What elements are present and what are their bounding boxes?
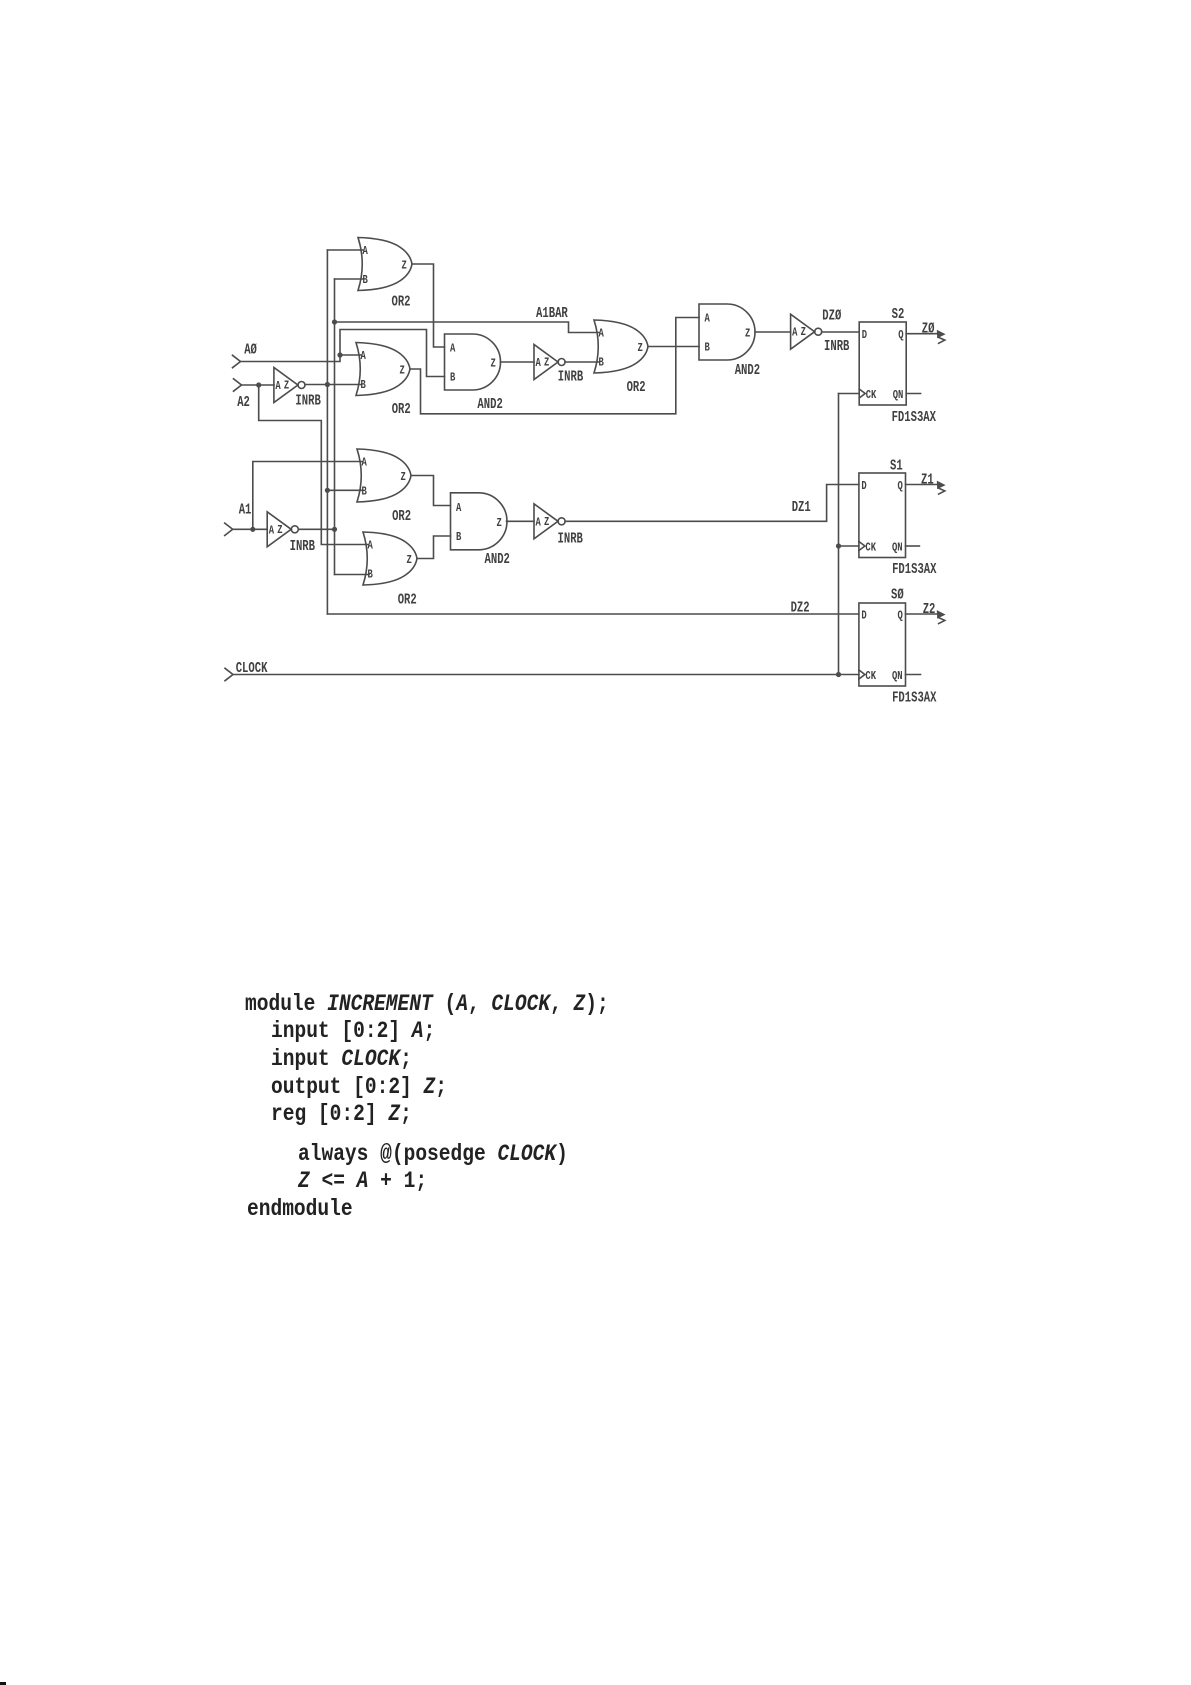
- svg-text:Z: Z: [491, 357, 496, 371]
- output port Z0: [906, 322, 945, 344]
- svg-text:DZ1: DZ1: [792, 500, 811, 516]
- svg-text:A1BAR: A1BAR: [536, 306, 568, 322]
- wire net A1BAR branch to OR2 pin A (labelled A1BAR): [332, 306, 599, 333]
- svg-text:Z: Z: [497, 516, 502, 530]
- svg-text:Z: Z: [407, 553, 412, 567]
- wire AND2#2 Z to INRB input: [755, 331, 791, 333]
- wire net A0 (input to OR2 pin A and AND2 pin B): [241, 330, 445, 377]
- svg-text:A: A: [536, 356, 542, 370]
- wire FF S0 QN stub: [906, 674, 921, 676]
- svg-text:OR2: OR2: [392, 402, 411, 418]
- and-gate AND2 #2: [699, 304, 760, 379]
- svg-text:A: A: [456, 501, 462, 515]
- svg-text:INRB: INRB: [295, 394, 321, 410]
- svg-text:A: A: [450, 342, 456, 356]
- svg-text:A: A: [275, 379, 281, 393]
- svg-text:FD1S3AX: FD1S3AX: [892, 410, 937, 426]
- or-gate OR2 #2: [356, 343, 411, 419]
- wire DZ1 (INRB output to FF S1 pin D): [565, 485, 859, 522]
- inverter INRB #4 (DZ1): [534, 504, 583, 548]
- svg-text:OR2: OR2: [627, 380, 646, 396]
- input port CLOCK: [225, 661, 268, 681]
- flip-flop S1 FD1S3AX: [859, 459, 937, 578]
- wire OR2#3 Z to AND2#2 pin B: [648, 346, 699, 348]
- svg-text:Z: Z: [544, 356, 549, 370]
- svg-text:B: B: [362, 485, 367, 499]
- svg-text:B: B: [450, 371, 455, 385]
- svg-text:Z: Z: [745, 327, 750, 341]
- svg-text:B: B: [599, 356, 604, 370]
- wire OR2#1 Z to AND2#1 pin A: [412, 264, 445, 347]
- svg-text:OR2: OR2: [392, 295, 411, 311]
- or-gate OR2 #3: [594, 320, 648, 396]
- scan corner mark: [0, 1682, 6, 1685]
- svg-text:CK: CK: [865, 669, 876, 683]
- svg-text:AND2: AND2: [485, 552, 510, 568]
- svg-text:FD1S3AX: FD1S3AX: [892, 691, 937, 707]
- svg-text:INRB: INRB: [290, 539, 316, 555]
- svg-text:Z: Z: [277, 523, 282, 537]
- svg-text:CK: CK: [866, 388, 877, 402]
- svg-text:Z: Z: [284, 379, 289, 393]
- input port A2: [234, 379, 250, 411]
- svg-text:OR2: OR2: [398, 593, 417, 609]
- svg-text:Q: Q: [898, 609, 903, 623]
- svg-text:SØ: SØ: [891, 588, 904, 604]
- wire OR2#2 Z to AND2#2 pin A: [410, 318, 699, 414]
- wire AND2#1 Z to INRB input: [501, 361, 535, 363]
- inverter INRB #5: [534, 345, 583, 386]
- wire net A2BAR (INRB output bus to OR2 pins): [305, 250, 859, 614]
- wire OR2#5 Z to AND2#3 pin B: [417, 536, 451, 559]
- svg-text:A: A: [792, 326, 798, 340]
- input port A0: [233, 343, 258, 368]
- svg-text:Z: Z: [401, 470, 406, 484]
- svg-text:DZ2: DZ2: [791, 601, 810, 617]
- wire net A1 (input to INRB pin A and OR2 pin A): [233, 462, 362, 532]
- output port Z2: [906, 602, 946, 624]
- svg-text:Z2: Z2: [923, 602, 936, 618]
- svg-text:B: B: [363, 273, 368, 287]
- input port A1: [225, 503, 252, 536]
- inverter INRB #2 (A1): [267, 512, 315, 555]
- wire CLOCK net (to FF CK pins): [233, 394, 859, 678]
- svg-text:Z1: Z1: [921, 473, 934, 489]
- svg-text:A: A: [269, 523, 275, 537]
- svg-text:Z: Z: [544, 515, 549, 529]
- svg-text:QN: QN: [893, 388, 904, 402]
- svg-text:ZØ: ZØ: [922, 322, 935, 338]
- flip-flop S0 FD1S3AX: [859, 588, 937, 707]
- or-gate OR2 #1: [358, 238, 412, 311]
- svg-text:D: D: [861, 479, 866, 493]
- svg-text:B: B: [361, 378, 366, 392]
- svg-text:A: A: [361, 349, 367, 363]
- svg-text:S1: S1: [890, 459, 903, 475]
- svg-text:A: A: [368, 539, 374, 553]
- svg-text:AØ: AØ: [244, 343, 257, 359]
- svg-text:INRB: INRB: [824, 339, 850, 355]
- svg-text:A: A: [363, 244, 369, 258]
- svg-text:FD1S3AX: FD1S3AX: [892, 562, 937, 578]
- svg-text:D: D: [862, 328, 867, 342]
- svg-text:A1: A1: [239, 503, 252, 519]
- output port Z1: [906, 473, 946, 495]
- wire OR2#4 Z to AND2#3 pin A: [411, 476, 451, 506]
- svg-text:B: B: [368, 568, 373, 582]
- wire DZ0 (INRB output to FF S2 pin D): [822, 331, 860, 333]
- inverter INRB #3 (DZ0): [791, 314, 850, 355]
- svg-text:A: A: [362, 456, 368, 470]
- svg-text:Z: Z: [400, 364, 405, 378]
- svg-text:A2: A2: [237, 395, 250, 411]
- svg-text:S2: S2: [892, 307, 905, 323]
- or-gate OR2 #4: [357, 449, 411, 525]
- flip-flop S2 FD1S3AX: [859, 307, 936, 426]
- svg-text:A: A: [599, 327, 605, 341]
- svg-text:AND2: AND2: [735, 363, 760, 379]
- wire FF S1 QN stub: [906, 545, 920, 547]
- svg-text:CK: CK: [865, 541, 876, 555]
- svg-text:Z: Z: [638, 341, 643, 355]
- svg-text:A: A: [705, 312, 711, 326]
- wire net A1BAR (INRB output bus to OR2 pins): [298, 279, 369, 575]
- svg-text:Q: Q: [898, 479, 903, 493]
- svg-text:INRB: INRB: [558, 370, 584, 386]
- svg-text:QN: QN: [892, 669, 903, 683]
- svg-text:OR2: OR2: [392, 509, 411, 525]
- svg-text:Z: Z: [402, 259, 407, 273]
- svg-text:AND2: AND2: [477, 397, 502, 413]
- svg-text:Z: Z: [801, 325, 806, 339]
- and-gate AND2 #1: [445, 334, 503, 413]
- and-gate AND2 #3: [451, 493, 510, 568]
- svg-text:B: B: [456, 530, 461, 544]
- svg-text:A: A: [536, 515, 542, 529]
- inverter INRB #1 (A2): [274, 368, 321, 410]
- wire net A2 (input to INRB pin A and OR2 pin A): [242, 382, 369, 544]
- or-gate OR2 #5: [363, 532, 417, 609]
- svg-text:Q: Q: [898, 328, 903, 342]
- wire INRB output to OR2#3 pin B: [565, 361, 599, 363]
- svg-text:INRB: INRB: [558, 532, 584, 548]
- wire FF S2 QN stub: [906, 393, 920, 395]
- svg-text:D: D: [861, 609, 866, 623]
- svg-text:DZØ: DZØ: [822, 309, 841, 325]
- svg-text:B: B: [705, 341, 710, 355]
- svg-text:QN: QN: [892, 541, 903, 555]
- wire AND2#3 Z to INRB input: [507, 520, 535, 522]
